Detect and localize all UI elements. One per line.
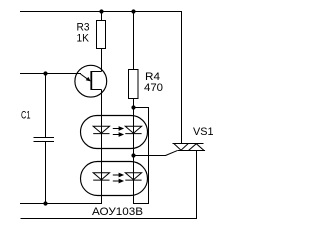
optocoupler U1 body (upper stadium) xyxy=(81,116,148,149)
triac VS1 xyxy=(173,144,205,151)
wire C1 top lead xyxy=(45,74,47,138)
node: emitter wire / C1 junction xyxy=(43,71,47,75)
wire R4 top lead xyxy=(133,12,135,70)
transistor VT1 emitter diagonal with arrow xyxy=(81,74,90,81)
wire photothyristor chain vertical xyxy=(133,108,135,205)
photodiode VD2 (triangle + cathode bar) xyxy=(125,173,141,180)
optical coupling arrows (lower) xyxy=(113,173,123,182)
wire bottom-most rail xyxy=(21,218,198,220)
wire bottom rail xyxy=(20,203,102,205)
wire gate diagonal to VS1 xyxy=(166,151,178,156)
wire top rail xyxy=(20,11,182,13)
transistor VT1 base bar xyxy=(90,71,92,90)
wire right drop (top rail to VS1 anode) xyxy=(181,12,183,144)
transistor VT1 base-1 lead xyxy=(91,89,101,91)
wire C1 bottom lead xyxy=(45,142,47,204)
capacitor C1 plates xyxy=(34,137,55,139)
node: top rail / R4 junction xyxy=(131,9,135,13)
node: top rail / R3 junction xyxy=(99,9,103,13)
wire R4 bottom lead xyxy=(133,99,135,108)
wire bracket top xyxy=(134,107,150,109)
wire LED chain vertical xyxy=(101,90,103,205)
wire R3 bottom to transistor B2 xyxy=(101,49,103,72)
svg-text:АОУ103В: АОУ103В xyxy=(92,206,143,218)
optocoupler U2 body (lower stadium) xyxy=(81,162,148,196)
transistor VT1 base-2 lead xyxy=(91,71,101,73)
wire VS1 cathode xyxy=(196,151,198,220)
LED D2 (triangle + cathode bar) xyxy=(93,173,109,180)
LED D1 (triangle + cathode bar) xyxy=(93,126,109,133)
svg-text:C1: C1 xyxy=(21,110,31,122)
wire bracket bottom xyxy=(134,203,150,205)
photodiode VD1 (triangle + cathode bar) xyxy=(125,126,141,133)
wire bracket right vertical xyxy=(148,108,150,205)
wire R3 top lead xyxy=(101,12,103,21)
transistor VT1 (unijunction) circle xyxy=(75,65,107,97)
optical coupling arrows (upper) xyxy=(113,127,123,136)
resistor R4 xyxy=(129,70,139,99)
wire gate horizontal xyxy=(134,155,167,157)
wire mid-left (emitter wire) xyxy=(20,73,81,75)
svg-text:1K: 1K xyxy=(77,33,90,45)
svg-text:470: 470 xyxy=(144,82,163,94)
node: photothyristor midpoint / gate junction xyxy=(131,153,135,157)
node: bottom rail / C1 junction xyxy=(43,201,47,205)
svg-text:VS1: VS1 xyxy=(193,126,214,138)
resistor R3 xyxy=(97,21,106,49)
node: R4 / photothyristor chain junction xyxy=(131,105,135,109)
